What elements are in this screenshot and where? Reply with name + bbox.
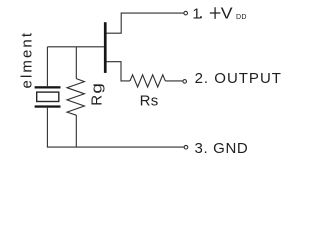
crystal element top plate [35,86,61,88]
wire crystal bottom lead [46,108,48,147]
crystal element body [37,92,59,101]
terminal 3 circle [184,145,188,149]
wire ground rail to terminal 3 [47,146,184,148]
svg-text:g: g [88,83,105,94]
wire Rg top lead [75,47,77,79]
resistor Rg zigzag [67,79,84,116]
svg-text:Rs: Rs [140,93,159,110]
wire gate node horizontal [47,46,104,48]
label period after 1 [200,16,202,18]
wire Rg bottom lead [75,115,77,147]
svg-text:V: V [221,5,234,22]
svg-text:R: R [88,95,105,106]
svg-text:1: 1 [192,5,200,22]
wire drain to +VDD terminal [107,13,184,33]
wire Rs to output terminal [165,80,183,82]
wire crystal top lead [46,47,48,86]
wire source to Rs [107,62,131,81]
svg-text:3. GND: 3. GND [195,140,249,157]
terminal 2 circle [183,80,187,84]
terminal 1 circle [184,11,188,15]
resistor Rs zigzag [130,75,165,87]
plus sign of +VDD [210,7,221,19]
svg-text:elment: elment [18,31,35,89]
svg-text:2. OUTPUT: 2. OUTPUT [195,70,282,87]
transistor Q1 bar [104,22,107,73]
crystal element bottom plate [35,105,61,107]
svg-text:DD: DD [236,13,247,21]
